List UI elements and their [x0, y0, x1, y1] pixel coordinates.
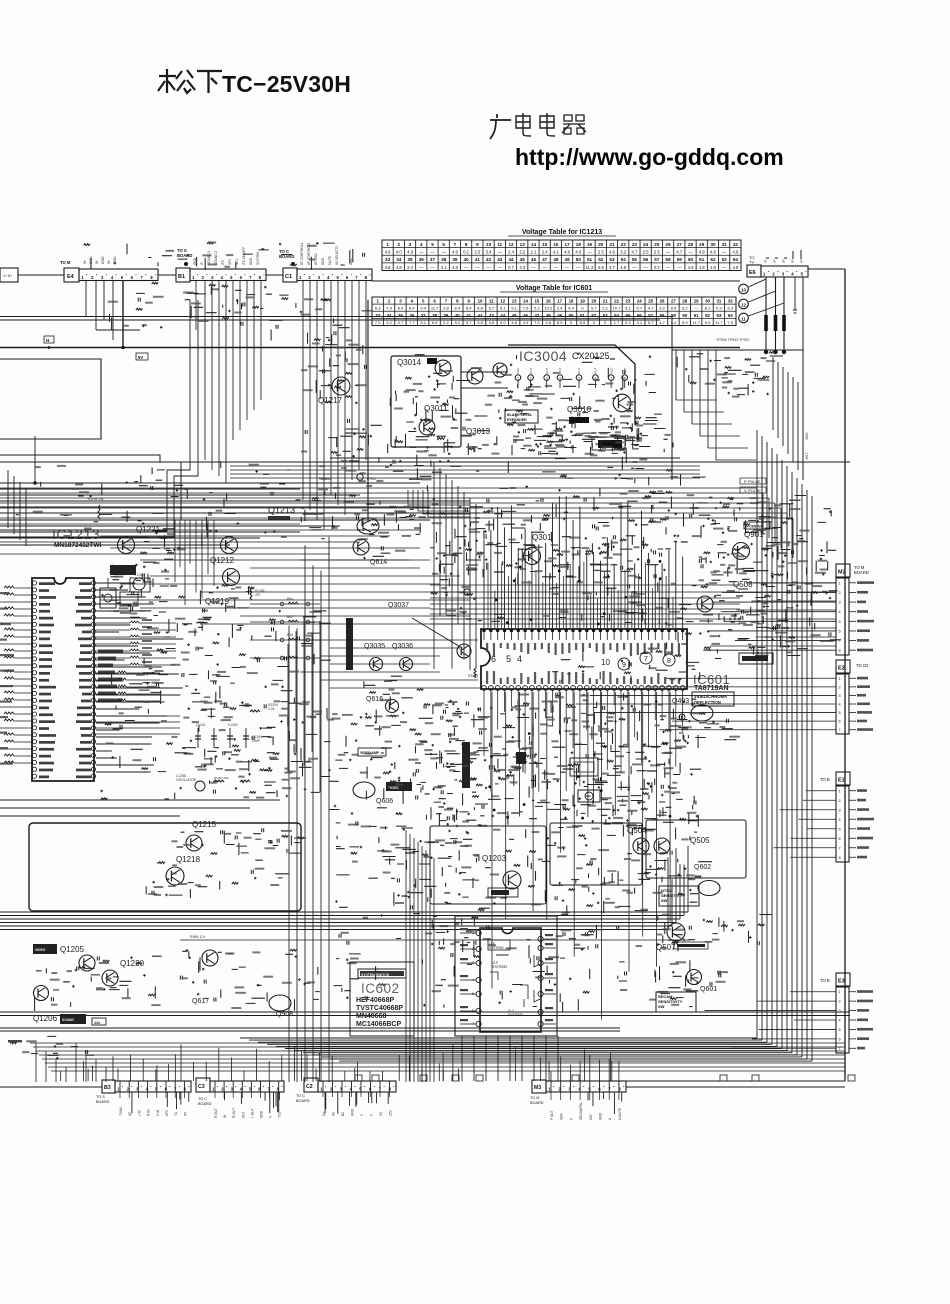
svg-text:45: 45 [520, 257, 526, 262]
svg-text:B1: B1 [178, 274, 185, 280]
svg-text:4.7: 4.7 [659, 320, 665, 325]
svg-text:4: 4 [111, 275, 114, 280]
svg-text:27: 27 [677, 242, 683, 247]
parts right of connector C1 drop zone y330-460 [305, 333, 382, 458]
connector bar pin tick combs C3 [214, 1081, 216, 1092]
svg-text:0.2: 0.2 [654, 265, 660, 270]
svg-text:OUT: OUT [545, 368, 549, 375]
voltage table for IC1213 grid [382, 240, 741, 271]
svg-text:BOARD: BOARD [96, 1100, 110, 1104]
svg-text:0.1: 0.1 [463, 250, 469, 255]
svg-text:33: 33 [385, 257, 391, 262]
svg-text:5P: 5P [782, 259, 786, 263]
svg-text:OSCILLATOR: OSCILLATOR [176, 778, 197, 782]
svg-text:23: 23 [632, 242, 638, 247]
connector C1 pin bar [297, 269, 372, 281]
svg-text:7: 7 [141, 275, 144, 280]
transistor QJ01 left of IC601 [457, 644, 471, 658]
svg-text:Q617: Q617 [192, 998, 209, 1005]
svg-text:7: 7 [445, 299, 448, 304]
svg-text:6: 6 [240, 275, 243, 280]
R1294 12+ wire [180, 939, 690, 941]
bus lines under IC3004 [330, 457, 680, 459]
svg-text:V. PULSE: V. PULSE [744, 489, 761, 493]
svg-text:25: 25 [654, 242, 660, 247]
svg-text:12V: 12V [589, 1113, 593, 1120]
TP950 testpoint [357, 474, 363, 480]
svg-text:Q3014: Q3014 [397, 358, 422, 367]
svg-text:IN: IN [223, 1114, 227, 1118]
components under IC3004 row2 [539, 427, 650, 453]
wires above big sound box y798-818 [0, 799, 280, 801]
wires IC1213 right side to east [96, 582, 135, 584]
svg-text:6: 6 [442, 242, 445, 247]
vertical drop x123 from connector [122, 281, 124, 348]
svg-text:35: 35 [407, 257, 413, 262]
svg-text:11.7: 11.7 [692, 320, 700, 325]
svg-text:7: 7 [839, 1047, 841, 1051]
svg-text:23: 23 [625, 299, 630, 304]
upper left bus band parts [16, 461, 227, 546]
svg-text:—: — [565, 265, 570, 270]
svg-text:P. PULSE: P. PULSE [744, 480, 761, 484]
svg-text:21: 21 [609, 242, 615, 247]
svg-text:A.MUTE: A.MUTE [618, 1108, 622, 1120]
svg-text:4.8: 4.8 [385, 265, 391, 270]
svg-text:11.7: 11.7 [715, 320, 723, 325]
parts under connector band y285-330 [110, 282, 373, 340]
svg-text:34: 34 [387, 313, 392, 318]
left mid extra parts [100, 602, 326, 799]
svg-text:SOUND 1: SOUND 1 [207, 251, 211, 265]
svg-text:2: 2 [308, 275, 311, 280]
svg-text:61: 61 [694, 313, 699, 318]
transistor Q3014 [435, 360, 451, 376]
svg-text:AF CONTROL1: AF CONTROL1 [300, 242, 304, 265]
long bus y490-520 bundle [0, 487, 757, 489]
R986 labels right of IC602 [563, 930, 603, 951]
risers above B3 C3 C2 connectors [117, 1068, 119, 1081]
Q1205 bias parts [35, 956, 162, 1011]
svg-text:53: 53 [609, 257, 615, 262]
svg-text:4.9: 4.9 [598, 265, 604, 270]
svg-text:5.2: 5.2 [534, 306, 540, 311]
svg-text:3.4: 3.4 [486, 250, 492, 255]
svg-text:R-OUT: R-OUT [232, 1108, 236, 1118]
svg-text:R1254 14k: R1254 14k [88, 497, 104, 501]
R1297 parts row y750 [182, 748, 278, 772]
svg-text:Q606: Q606 [376, 798, 393, 805]
svg-text:1: 1 [81, 275, 84, 280]
R1268 470 resistor [250, 588, 252, 600]
Q3014 subcircuit box [391, 356, 461, 447]
svg-text:GND: GND [249, 257, 253, 265]
trunk turn corners to bottom bus [240, 1037, 757, 1039]
svg-text:48: 48 [546, 313, 551, 318]
svg-text:BOARD: BOARD [198, 1102, 212, 1106]
vertical drop x104 [103, 281, 105, 320]
svg-text:8: 8 [365, 275, 368, 280]
right chroma extra 2 [699, 500, 831, 658]
svg-text:27: 27 [671, 299, 676, 304]
svg-text:10.2: 10.2 [544, 306, 553, 311]
svg-text:58: 58 [660, 313, 665, 318]
svg-text:3.2: 3.2 [682, 306, 688, 311]
IC602 pin value labels right [543, 938, 556, 940]
svg-text:7: 7 [644, 656, 648, 663]
svg-text:8: 8 [456, 299, 459, 304]
svg-text:2: 2 [388, 299, 391, 304]
transistor Q1218 [166, 867, 184, 885]
connector E4 pin bar [79, 269, 158, 281]
wire B1 to C1 [266, 274, 283, 276]
svg-text:61: 61 [699, 257, 705, 262]
IC1213 internal pin label text left [39, 582, 55, 585]
svg-text:2: 2 [772, 272, 775, 277]
svg-text:10: 10 [478, 299, 483, 304]
bus into tp row [672, 349, 803, 351]
svg-text:59: 59 [677, 257, 683, 262]
svg-text:36: 36 [409, 313, 414, 318]
svg-text:C2: C2 [306, 1084, 313, 1090]
svg-text:SYSTEM1: SYSTEM1 [489, 946, 504, 950]
horizontal distribution wires y600-625 [430, 584, 740, 586]
svg-text:—: — [554, 265, 559, 270]
svg-text:AF2: AF2 [165, 1110, 169, 1116]
right rail vertical x845 [844, 269, 846, 1081]
transistor Q1220b [102, 970, 118, 986]
svg-text:19: 19 [580, 299, 585, 304]
svg-text:IN: IN [95, 260, 99, 264]
svg-text:62: 62 [710, 257, 716, 262]
circled pad 10 [739, 284, 749, 294]
svg-text:—: — [430, 265, 435, 270]
svg-text:Q1213: Q1213 [268, 505, 295, 515]
svg-text:—: — [531, 265, 536, 270]
svg-text:H: H [46, 338, 49, 343]
svg-text:GND: GND [260, 1110, 264, 1118]
svg-text:4.1: 4.1 [441, 265, 447, 270]
L1262 coil rows [96, 672, 118, 674]
svg-text:17: 17 [565, 242, 571, 247]
svg-text:TO M: TO M [60, 260, 71, 265]
svg-text:7: 7 [454, 242, 457, 247]
svg-text:VCC: VCC [516, 367, 520, 374]
svg-text:470: 470 [255, 593, 261, 597]
right rail bottom corner [620, 1080, 845, 1082]
svg-text:3: 3 [839, 808, 841, 812]
svg-text:5.1: 5.1 [511, 306, 517, 311]
svg-text:Q508: Q508 [733, 580, 753, 589]
connector A1 partial left edge [0, 268, 18, 282]
svg-text:36: 36 [419, 257, 425, 262]
transistor Q615 [353, 539, 369, 555]
IC3004 region extra parts [390, 353, 656, 456]
bus y1015 [0, 1015, 850, 1017]
svg-text:11.2: 11.2 [586, 265, 595, 270]
svg-text:—: — [442, 250, 447, 255]
svg-text:56: 56 [637, 313, 642, 318]
left edge vertical joints y460-545 [7, 470, 9, 528]
svg-text:14: 14 [523, 299, 528, 304]
svg-text:GND: GND [599, 1112, 603, 1120]
transistor Q3036 [400, 658, 413, 671]
svg-text:22: 22 [614, 299, 619, 304]
12v boxed label [92, 1018, 106, 1025]
bus A right risers [687, 846, 689, 912]
R1287 blob [268, 516, 290, 520]
svg-text:8: 8 [624, 377, 626, 381]
svg-text:TO C: TO C [296, 1094, 305, 1098]
svg-text:0: 0 [570, 320, 573, 325]
svg-text:40: 40 [455, 313, 460, 318]
svg-text:58: 58 [666, 257, 672, 262]
transistor Q1205a [79, 955, 95, 971]
svg-text:Q3036: Q3036 [392, 643, 413, 650]
svg-text:9: 9 [476, 242, 479, 247]
svg-text:9: 9 [622, 662, 626, 669]
Q507 parts [663, 915, 772, 946]
connector C3 pin bar [210, 1081, 284, 1092]
svg-text:3: 3 [568, 1087, 571, 1092]
svg-text:57: 57 [648, 313, 653, 318]
svg-text:C1341: C1341 [196, 723, 206, 727]
R917 parts above Q901 [709, 497, 771, 533]
field above IC601 extra 2 [441, 506, 691, 619]
bottom connector joining line [626, 1086, 845, 1088]
R964 parts mid [252, 949, 320, 1010]
svg-text:4.9: 4.9 [699, 250, 705, 255]
dense component field below IC601 left [336, 820, 476, 869]
510H delay label [570, 758, 598, 776]
svg-text:4: 4 [411, 299, 414, 304]
bottom center extra parts [334, 832, 699, 1012]
svg-text:4: 4 [559, 377, 561, 381]
H center boxed label [744, 522, 770, 529]
Q504 parts [627, 851, 712, 880]
junction dots above IC601 [624, 596, 627, 599]
IC3004 lower zone extra [424, 391, 661, 455]
junction row y481-485 [35, 482, 400, 484]
bottom bus left risers [35, 1043, 37, 1082]
test point dots [764, 350, 768, 354]
svg-text:OUT: OUT [241, 1111, 245, 1118]
svg-text:47: 47 [542, 257, 548, 262]
D302 C314 parts col x600-640 [596, 535, 661, 624]
left chroma parts x640-700 y600-700 [640, 609, 701, 681]
svg-text:30: 30 [705, 299, 710, 304]
svg-text:—: — [464, 265, 469, 270]
transistor Q606 ellipse [353, 782, 375, 798]
IC602 internal TLF SYSTEM1 [488, 940, 510, 950]
svg-text:8.5: 8.5 [671, 306, 677, 311]
svg-text:5.9: 5.9 [705, 320, 711, 325]
svg-text:2: 2 [839, 1000, 841, 1004]
svg-text:—: — [430, 250, 435, 255]
IC3004 inner components below pins [505, 383, 642, 463]
svg-text:—: — [498, 250, 503, 255]
parts grid x700-830 y540-600 [701, 542, 838, 600]
svg-text:4: 4 [420, 242, 423, 247]
svg-text:Q1218: Q1218 [176, 855, 201, 864]
svg-text:46: 46 [531, 257, 537, 262]
svg-text:2.8: 2.8 [443, 306, 449, 311]
svg-text:TV: TV [749, 260, 754, 265]
svg-text:4.9: 4.9 [688, 265, 694, 270]
svg-text:TU2: TU2 [278, 1112, 282, 1118]
svg-text:TO C: TO C [198, 1097, 207, 1101]
svg-text:C: C [370, 1113, 374, 1116]
svg-text:J915: J915 [286, 633, 293, 637]
transistor Q901 [733, 543, 750, 560]
svg-text:3.8: 3.8 [489, 320, 495, 325]
svg-text:4: 4 [221, 275, 224, 280]
left trunk verticals [405, 830, 407, 1082]
wire C1 bar to table underline [372, 280, 740, 282]
svg-text:VIDEO: VIDEO [35, 948, 46, 952]
svg-text:J904: J904 [286, 597, 293, 601]
svg-text:5: 5 [839, 620, 841, 624]
svg-text:2: 2 [839, 685, 841, 689]
svg-text:4.7: 4.7 [632, 250, 638, 255]
svg-text:Q3035: Q3035 [364, 643, 385, 650]
wire E6 to right rail [808, 268, 845, 270]
svg-text:2: 2 [839, 799, 841, 803]
svg-text:1: 1 [839, 990, 841, 994]
svg-text:64: 64 [728, 313, 733, 318]
svg-text:6: 6 [346, 275, 349, 280]
vertical wires x286-320 y620-760 [287, 644, 289, 773]
svg-text:32: 32 [728, 299, 733, 304]
svg-text:41: 41 [466, 313, 471, 318]
svg-text:11: 11 [489, 299, 494, 304]
svg-text:1: 1 [212, 1087, 215, 1092]
C1296 parts mid [143, 673, 220, 714]
svg-text:1: 1 [376, 299, 379, 304]
svg-text:39: 39 [443, 313, 448, 318]
svg-text:3: 3 [399, 299, 402, 304]
svg-text:13: 13 [520, 242, 526, 247]
diagonal pointer Q3037 [412, 618, 462, 648]
long verticals x288-330 downward [288, 625, 290, 1082]
svg-text:IC1213: IC1213 [52, 526, 100, 542]
vertical drop x96 [95, 281, 97, 330]
svg-text:19: 19 [587, 242, 593, 247]
svg-text:2: 2 [398, 242, 401, 247]
svg-text:3: 3 [101, 275, 104, 280]
svg-text:16: 16 [553, 242, 559, 247]
svg-text:8: 8 [465, 242, 468, 247]
svg-text:51: 51 [587, 257, 593, 262]
svg-text:—: — [644, 265, 649, 270]
svg-text:63: 63 [716, 313, 721, 318]
R604 resistor rows y740-770 [367, 741, 432, 779]
svg-text:3: 3 [409, 242, 412, 247]
svg-text:1: 1 [386, 242, 389, 247]
svg-text:25: 25 [648, 299, 653, 304]
svg-text:4.9: 4.9 [523, 320, 529, 325]
svg-text:5.9: 5.9 [682, 320, 688, 325]
svg-text:MC14066BCP: MC14066BCP [356, 1021, 401, 1028]
IC601 inside mid tiny marks [552, 652, 631, 684]
main bus bundle A [0, 911, 688, 913]
svg-text:4.6: 4.6 [575, 250, 581, 255]
transistor Q1212a [221, 537, 238, 554]
svg-text:Q504: Q504 [627, 826, 647, 835]
svg-text:4.8: 4.8 [452, 265, 458, 270]
C1257 cap parts [154, 616, 210, 654]
svg-text:3.8: 3.8 [477, 320, 483, 325]
IC601 bottom pin circles [482, 686, 487, 691]
svg-text:V IN: V IN [156, 1109, 160, 1116]
svg-text:4: 4 [327, 275, 330, 280]
svg-text:18: 18 [576, 242, 582, 247]
svg-text:2.2k: 2.2k [268, 707, 275, 711]
bottom distribution bus bundle [30, 1042, 845, 1044]
svg-text:J917: J917 [805, 453, 809, 460]
svg-text:TO B: TO B [820, 978, 830, 983]
svg-text:4.9: 4.9 [609, 250, 615, 255]
svg-text:42: 42 [478, 313, 483, 318]
svg-text:54: 54 [614, 313, 619, 318]
svg-text:—: — [666, 250, 671, 255]
svg-text:E2: E2 [838, 666, 845, 672]
svg-text:—: — [722, 250, 727, 255]
svg-text:7.0: 7.0 [534, 320, 540, 325]
lum delay blob [598, 440, 622, 448]
svg-text:8.8: 8.8 [477, 306, 483, 311]
svg-text:48: 48 [553, 257, 559, 262]
E6 pin2 drop with arrow [775, 277, 777, 352]
svg-text:31: 31 [716, 299, 721, 304]
connector M3 box [532, 1080, 546, 1093]
svg-text:5: 5 [839, 1028, 841, 1032]
svg-text:C1: C1 [285, 274, 292, 280]
svg-text:A2: A2 [332, 1112, 336, 1116]
east label boxes right of IC1213 [98, 650, 123, 653]
box around BW system block [550, 823, 642, 885]
svg-text:4.6: 4.6 [564, 250, 570, 255]
svg-text:4.3: 4.3 [519, 265, 525, 270]
Q3014 option blob [427, 358, 437, 364]
svg-text:SOUND: SOUND [62, 1018, 75, 1022]
svg-text:5P: 5P [791, 259, 795, 263]
svg-text:4: 4 [517, 654, 522, 664]
connector E3 with strip [836, 973, 850, 986]
svg-text:4: 4 [839, 703, 841, 707]
svg-text:—: — [498, 265, 503, 270]
cap bank C1341 C1342 C1343 [197, 728, 199, 748]
svg-text:7: 7 [839, 846, 841, 850]
small components above connector C1 area [185, 286, 302, 318]
IC602 internal switch shapes [534, 955, 540, 1002]
svg-text:E3: E3 [838, 979, 845, 985]
wire pad10 diag [749, 279, 767, 287]
svg-text:60: 60 [682, 313, 687, 318]
svg-text:4.9: 4.9 [732, 250, 738, 255]
right side parts of IC3004 area [611, 422, 642, 453]
svg-text:16: 16 [546, 299, 551, 304]
connector M2 with strip [836, 564, 850, 577]
black level expander label [505, 410, 538, 423]
left edge connector stub [0, 1086, 102, 1088]
wire pad11 diag [749, 303, 785, 316]
svg-text:41: 41 [475, 257, 481, 262]
connector B3 box [102, 1080, 115, 1093]
svg-text:5V: 5V [183, 1111, 187, 1116]
svg-text:8.4: 8.4 [455, 306, 461, 311]
svg-text:15: 15 [542, 242, 548, 247]
